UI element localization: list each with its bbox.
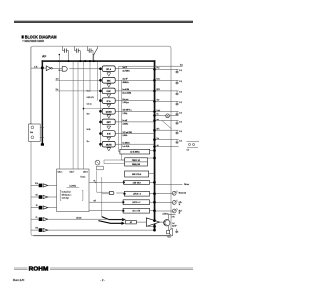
svg-text:osc: osc <box>157 119 160 121</box>
svg-text:1k: 1k <box>179 204 181 206</box>
svg-text:MUTE: MUTE <box>106 144 112 146</box>
svg-text:S M: S M <box>107 134 111 136</box>
svg-text:Na: Na <box>157 114 159 116</box>
svg-text:S/D MPX o.: S/D MPX o. <box>123 110 133 112</box>
svg-text:Feed b.: Feed b. <box>81 177 87 179</box>
svg-text:NC: NC <box>94 181 96 183</box>
svg-text:0.01: 0.01 <box>179 81 182 83</box>
svg-text:7.6V: 7.6V <box>172 216 175 218</box>
svg-text:0.01: 0.01 <box>179 121 182 123</box>
svg-text:1.0Vp-p: 1.0Vp-p <box>123 102 129 104</box>
svg-text:NC: NC <box>94 201 96 203</box>
svg-text:4 BIT SH.R: 4 BIT SH.R <box>133 182 142 184</box>
svg-text:4.7k: 4.7k <box>34 66 37 68</box>
svg-text:1/2fo·7: 1/2fo·7 <box>70 171 75 173</box>
svg-text:fo=fr±1.5 LB: fo=fr±1.5 LB <box>62 192 71 194</box>
svg-text:0.01: 0.01 <box>179 112 182 114</box>
svg-text:PRESC 1/2: PRESC 1/2 <box>132 160 140 162</box>
svg-text:BLOCK DIAGRAM: BLOCK DIAGRAM <box>25 35 57 40</box>
svg-text:fo ±Δf: fo ±Δf <box>123 119 128 122</box>
svg-text:0.01: 0.01 <box>179 70 182 72</box>
svg-text:0.01: 0.01 <box>179 102 182 104</box>
svg-text:0.01: 0.01 <box>179 140 182 142</box>
svg-text:2nd: 2nd <box>56 78 59 80</box>
svg-text:MPX: MPX <box>157 89 160 91</box>
svg-text:1/2W 8Ω: 1/2W 8Ω <box>163 214 170 216</box>
svg-text:Vco b: Vco b <box>87 90 91 92</box>
svg-text:4.7k: 4.7k <box>187 150 190 152</box>
svg-text:IF A: IF A <box>107 100 111 103</box>
svg-text:3.0Vb: 3.0Vb <box>123 135 128 137</box>
svg-text:5.1k: 5.1k <box>35 183 38 185</box>
svg-text:ROHM: ROHM <box>29 266 50 272</box>
svg-text:Vcc: Vcc <box>180 65 183 67</box>
svg-text:1.5Vp: 1.5Vp <box>123 113 128 115</box>
svg-text:B/S flag ab. s: B/S flag ab. s <box>62 195 72 197</box>
svg-text:fo 38kHz: fo 38kHz <box>123 143 130 145</box>
svg-text:Vd 1k: Vd 1k <box>87 129 91 131</box>
svg-text:0.022 4.7k: 0.022 4.7k <box>87 97 94 99</box>
svg-text:CL: CL <box>36 217 38 219</box>
svg-text:1/2fo·b: 1/2fo·b <box>83 171 88 173</box>
svg-text:S.D ab FM1: S.D ab FM1 <box>123 132 133 134</box>
svg-text:10.7MHz: 10.7MHz <box>123 70 130 72</box>
svg-text:Rev.1/0: Rev.1/0 <box>13 278 25 282</box>
svg-text:2nd IF: 2nd IF <box>123 79 129 81</box>
svg-text:BU2614 / BU2614F / BU2614FS: BU2614 / BU2614F / BU2614FS <box>25 40 45 43</box>
svg-text:1k: 1k <box>179 213 181 215</box>
svg-text:1/2 (7.2MHz): 1/2 (7.2MHz) <box>130 152 140 154</box>
svg-text:QUAD: QUAD <box>106 111 112 114</box>
svg-text:Tun: Tun <box>157 138 160 140</box>
svg-text:S/W 1/7.3.6k: S/W 1/7.3.6k <box>132 174 141 176</box>
svg-text:0.01: 0.01 <box>179 92 182 94</box>
svg-text:IF in: IF in <box>157 68 160 70</box>
svg-text:OSC: OSC <box>107 91 112 93</box>
svg-text:4.7k: 4.7k <box>179 202 182 204</box>
svg-text:AF: AF <box>42 55 46 59</box>
svg-text:0.01: 0.01 <box>179 131 182 133</box>
svg-text:450kHz: 450kHz <box>123 82 129 84</box>
svg-text:Lch 3.8k: Lch 3.8k <box>123 146 130 148</box>
svg-text:8Ω SP: 8Ω SP <box>172 225 176 227</box>
svg-text:48.7: 48.7 <box>179 210 182 212</box>
svg-text:CE: CE <box>36 195 38 197</box>
svg-text:1/2fo·a: 1/2fo·a <box>58 171 63 173</box>
svg-text:S.C am: S.C am <box>87 104 93 106</box>
svg-text:4.0kHz: 4.0kHz <box>123 124 129 126</box>
svg-text:- 2 -: - 2 - <box>100 278 105 282</box>
svg-text:RF A: RF A <box>106 68 111 71</box>
svg-text:fo=4.5M: fo=4.5M <box>123 89 130 91</box>
svg-text:(A=2.25M): (A=2.25M) <box>123 92 132 95</box>
svg-text:Det out: Det out <box>123 98 129 101</box>
